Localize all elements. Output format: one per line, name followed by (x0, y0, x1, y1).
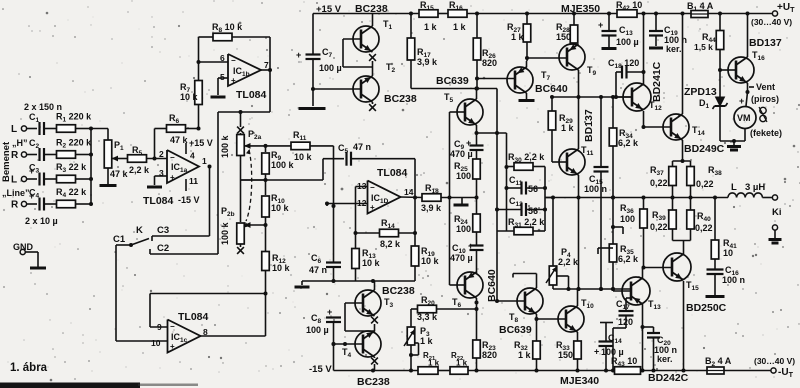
wire T5 base (450, 111, 466, 113)
resistor R3 (56, 162, 93, 183)
fan symbol (750, 107, 782, 138)
resistor R33 (556, 340, 581, 373)
wire T15 base (643, 267, 673, 269)
svg-text:47 n: 47 n (309, 265, 327, 275)
svg-text:0,22: 0,22 (650, 178, 668, 188)
capacitor C10 (450, 241, 484, 273)
capacitor C14 (594, 323, 624, 373)
svg-text:+: + (739, 96, 744, 106)
svg-text:0,22: 0,22 (650, 222, 668, 232)
wire node y180 (241, 156, 266, 223)
svg-text:BD241C: BD241C (651, 61, 663, 102)
resistor R24 (454, 198, 480, 246)
svg-text:+: + (594, 347, 599, 357)
svg-text:1. ábra: 1. ábra (10, 362, 48, 374)
resistor R32 (514, 319, 540, 373)
input terminal L1 (11, 124, 37, 135)
svg-text:100 µ: 100 µ (319, 63, 342, 73)
transistor T14 BD249C (663, 114, 705, 140)
wire bias node (553, 287, 630, 291)
wire C net to out (545, 197, 553, 199)
wire T8 base (497, 300, 525, 302)
label H quote (12, 138, 28, 148)
svg-text:C2: C2 (157, 243, 169, 254)
svg-text:MJE340: MJE340 (560, 375, 599, 387)
svg-text:3 µH: 3 µH (745, 182, 765, 193)
label BC639 T5 (436, 75, 469, 87)
label BD241C (651, 61, 663, 102)
svg-text:-15 V: -15 V (309, 364, 332, 375)
transistor T5 BC639 (444, 92, 483, 125)
wire T5 emitter (475, 125, 507, 135)
resistor R6 (155, 113, 201, 159)
wire BC639 node (411, 77, 497, 91)
svg-text:BC238: BC238 (382, 285, 415, 297)
wire IC1c feedback (150, 294, 266, 337)
svg-text:1 k: 1 k (518, 350, 532, 360)
svg-text:GND: GND (13, 242, 34, 252)
resistor R26 (473, 14, 497, 89)
ground tick out (454, 198, 469, 206)
svg-text:4: 4 (190, 151, 195, 161)
wire R39R40 join (673, 241, 691, 255)
transistor T16 BD137 (728, 50, 765, 83)
svg-text:10 k: 10 k (421, 256, 440, 266)
label BC639 T8 (499, 324, 532, 336)
wire T3 base (345, 303, 375, 331)
svg-text:100: 100 (456, 171, 471, 181)
svg-text:+: + (598, 20, 603, 30)
wire driver base column (449, 112, 451, 285)
capacitor C1 (29, 112, 57, 135)
svg-text:1 k: 1 k (511, 32, 525, 42)
inductor L (728, 182, 772, 198)
svg-text:0,22: 0,22 (696, 179, 714, 189)
svg-text:10 k: 10 k (180, 92, 199, 102)
label Line quote (2, 188, 30, 198)
op-amp IC1c (151, 320, 208, 353)
label Bemenet (1, 141, 12, 182)
svg-text:1 k: 1 k (424, 22, 438, 32)
capacitor C19 (649, 14, 687, 55)
wire col507 (505, 133, 509, 231)
wire gnd rail (302, 279, 415, 283)
wire T13 emitter (641, 304, 645, 373)
resistor R2 (56, 138, 93, 159)
resistor R41 (711, 198, 737, 270)
resistor R5 (121, 145, 167, 175)
wire T11 collector (578, 97, 580, 149)
svg-text:2 x 150 n: 2 x 150 n (24, 102, 62, 112)
svg-text:(30…40 V): (30…40 V) (751, 17, 792, 27)
wire T4 collector X (371, 357, 378, 371)
wire T10 emitter (577, 332, 579, 341)
transistor T7 BC640 (507, 67, 551, 93)
svg-text:470 µ: 470 µ (450, 253, 473, 263)
resistor R22 (450, 351, 537, 374)
svg-text:820: 820 (482, 58, 497, 68)
terminal Ki gnd (769, 225, 782, 243)
capacitor C9 (450, 133, 484, 159)
wire rail mid (438, 13, 448, 15)
ground C7 (299, 87, 326, 109)
label ZPD13 (684, 86, 717, 110)
wire rail right (527, 12, 617, 16)
svg-text:3,3 k: 3,3 k (417, 312, 438, 322)
resistor R7 (180, 37, 202, 129)
wire pin6 (199, 61, 229, 63)
label +15V (316, 4, 342, 15)
svg-text:+: + (327, 307, 332, 317)
op-amp IC1b (220, 53, 269, 86)
wire T14 emitter (681, 140, 685, 163)
op-amp IC1d (357, 181, 414, 214)
wire bottom rail (334, 369, 419, 373)
svg-text:TL084: TL084 (236, 89, 267, 101)
resistor R17 (407, 14, 438, 89)
transistor T3 BC238 (355, 290, 394, 316)
wire R11 tail (310, 146, 334, 206)
input terminal R2 (11, 150, 37, 161)
wire T14 collector (681, 12, 685, 115)
wire C2 line (150, 243, 218, 254)
wire pin13 (356, 187, 368, 234)
label BC238 T3 (382, 285, 415, 297)
power pin11 IC1a (178, 176, 200, 205)
label BC238 T4 (357, 376, 390, 388)
capacitor C7 (296, 14, 342, 107)
svg-text:R: R (11, 200, 19, 211)
svg-text:BC640: BC640 (535, 83, 568, 95)
wire out rail (401, 196, 424, 199)
svg-text:2,2 k: 2,2 k (129, 165, 150, 175)
svg-text:10 k: 10 k (294, 152, 313, 162)
wire T10 collector (577, 289, 579, 306)
svg-text:100: 100 (456, 224, 471, 234)
svg-text:10 k: 10 k (362, 258, 381, 268)
ground IC1a pin3 (147, 176, 167, 187)
label 1. abra (10, 362, 48, 374)
resistor R43 (611, 356, 641, 374)
transistor T11 BD137 (559, 145, 594, 175)
transistor T10 MJE340 (558, 298, 594, 332)
resistor R27 (507, 12, 531, 62)
wire VM gnd (720, 129, 745, 151)
label 2x150n (24, 102, 62, 112)
wire T2 collector X (369, 102, 376, 111)
wire T11 emitter (577, 175, 581, 291)
ground IC1b pin5 (211, 78, 229, 97)
svg-text:ZPD13: ZPD13 (684, 86, 717, 98)
resistor R40 (687, 198, 713, 241)
wire C3 line (152, 165, 212, 242)
svg-text:2: 2 (159, 149, 164, 159)
wire T13 collector (642, 268, 644, 279)
svg-text:14: 14 (404, 187, 414, 197)
svg-text:(30…40 V): (30…40 V) (754, 356, 795, 366)
svg-text:BD249C: BD249C (684, 143, 725, 155)
wire T3 emitter X (371, 317, 378, 331)
svg-text:1 k: 1 k (561, 123, 575, 133)
ground P1 (100, 168, 117, 186)
resistor R11 (266, 130, 313, 162)
capacitor C4 (29, 188, 57, 211)
wire T16 collector (747, 14, 749, 58)
svg-text:+: + (370, 203, 375, 212)
svg-text:+15 V: +15 V (189, 138, 213, 148)
resistor R39 (650, 198, 676, 241)
resistor R37 (650, 161, 676, 198)
input terminal R4 (11, 200, 37, 211)
wire bottom rail right (643, 369, 707, 373)
terminal +UT (751, 2, 795, 27)
label BC238 T1 (355, 3, 388, 15)
svg-text:2,2 k: 2,2 k (558, 257, 579, 267)
resistor R38 (687, 161, 722, 198)
transistor T9 MJE350 (559, 44, 597, 78)
svg-text:1: 1 (202, 156, 207, 166)
svg-text:6,2 k: 6,2 k (618, 138, 639, 148)
node P2a top (237, 110, 244, 133)
label BD242C (648, 372, 689, 384)
resistor R16 (448, 0, 527, 32)
label TL084 d (377, 167, 408, 179)
svg-text:BC238: BC238 (357, 376, 390, 388)
wire T11 base (552, 161, 567, 163)
svg-text:1 k: 1 k (428, 359, 440, 368)
terminal GND (13, 242, 46, 268)
wire T9 base (527, 57, 567, 59)
svg-text:3,9 k: 3,9 k (417, 57, 438, 67)
label TL084 b (236, 89, 267, 101)
label MJE350 (561, 3, 600, 15)
wire T1 emitter X (369, 54, 376, 67)
svg-text:56: 56 (528, 184, 538, 194)
svg-text:+: + (170, 173, 175, 182)
transistor T12 BD241C (623, 83, 662, 112)
svg-text:BC639: BC639 (499, 324, 532, 336)
node input bus (90, 129, 92, 205)
svg-text:+: + (468, 241, 473, 251)
bracket R34 (611, 225, 623, 234)
wire C5 to out (413, 159, 417, 235)
svg-text:100 µ: 100 µ (306, 325, 329, 335)
resistor R23 (473, 309, 497, 371)
capacitor C2 (29, 138, 57, 161)
svg-text:+: + (466, 138, 471, 148)
wire T9 collector (578, 70, 580, 97)
power pin4 IC1a (186, 138, 213, 161)
svg-text:(piros): (piros) (751, 94, 779, 104)
svg-text:47 k: 47 k (170, 135, 189, 145)
svg-text:1 k: 1 k (453, 22, 467, 32)
svg-text:L: L (11, 124, 17, 135)
capacitor C12 (497, 196, 545, 216)
wire T12 emitter (642, 111, 646, 129)
svg-text:−: − (170, 322, 175, 331)
wire T8 emitter (535, 314, 539, 321)
svg-text:+: + (231, 76, 236, 85)
wire bus to P1 (91, 129, 108, 141)
svg-text:+: + (296, 50, 301, 60)
label -15V (309, 364, 332, 375)
wire col497 (495, 89, 499, 304)
label Vent (749, 82, 779, 104)
resistor R14 (356, 218, 416, 249)
label BD249C (684, 143, 725, 155)
wire T14 base (644, 126, 672, 128)
wire T7 base (477, 78, 515, 80)
potentiometer P2a (220, 129, 268, 158)
svg-text:470 µ: 470 µ (450, 149, 473, 159)
scan artifact bar (0, 383, 198, 388)
capacitor C16 (706, 265, 746, 297)
ground rail sym (295, 281, 310, 287)
svg-text:Bemenet: Bemenet (1, 141, 12, 182)
capacitor C5 (241, 142, 416, 180)
svg-text:47 n: 47 n (353, 142, 371, 152)
resistor R19 (411, 233, 439, 281)
label BD137 T16 (749, 37, 782, 49)
wire T2 base (313, 88, 361, 90)
svg-text:TL084: TL084 (143, 195, 174, 207)
input terminal L3 (11, 175, 37, 186)
svg-text:K: K (136, 225, 143, 236)
svg-text:BD137: BD137 (583, 109, 595, 142)
svg-text:100 µ: 100 µ (616, 37, 639, 47)
wire IC1b out (261, 37, 272, 72)
wire +15V rail left (313, 12, 419, 16)
transistor T6 BC640 (452, 272, 483, 309)
transistor T8 BC639 (509, 288, 543, 324)
svg-text:100 k: 100 k (271, 160, 295, 170)
svg-text:1,5 k: 1,5 k (694, 42, 713, 52)
transistor T4 BC238 (342, 331, 381, 359)
svg-text:BD250C: BD250C (686, 302, 727, 314)
gang dashed line (245, 149, 252, 227)
svg-text:BD137: BD137 (749, 37, 782, 49)
wire T16 base (720, 69, 736, 71)
zener D1 (713, 70, 728, 141)
wire T3 collector (374, 281, 376, 290)
wire T8 collector (513, 274, 537, 289)
wire T7 collector gnd (519, 93, 535, 101)
resistor R21 (418, 351, 450, 374)
wire T7 emitter (526, 61, 528, 68)
switch K (113, 225, 149, 247)
wire rail y97 (552, 95, 632, 99)
wire T10 base (537, 318, 567, 320)
svg-text:100 k: 100 k (220, 221, 230, 245)
svg-text:100 k: 100 k (220, 134, 230, 158)
capacitor C6 (309, 206, 341, 281)
resistor R12 (262, 252, 291, 296)
wire T13 base (613, 290, 631, 292)
svg-text:10 k: 10 k (272, 263, 291, 273)
svg-text:(fekete): (fekete) (750, 128, 782, 138)
svg-text:L: L (731, 182, 737, 193)
svg-text:100 n: 100 n (584, 184, 607, 194)
svg-text:1 k: 1 k (420, 336, 434, 346)
resistor R30 (507, 152, 548, 231)
resistor R8 (199, 22, 271, 41)
resistor R10 (262, 193, 290, 252)
svg-text:„Line”: „Line” (2, 188, 30, 198)
svg-text:„H”: „H” (12, 138, 28, 148)
wire T15 emitter (682, 281, 686, 373)
svg-text:10 k: 10 k (271, 203, 290, 213)
resistor R18 (421, 183, 479, 213)
capacitor C13 (598, 14, 639, 49)
svg-text:-15 V: -15 V (178, 195, 200, 205)
svg-text:C3: C3 (157, 225, 169, 236)
svg-text:VM: VM (737, 113, 751, 123)
svg-text:Ki: Ki (772, 207, 782, 218)
svg-text:1 k: 1 k (456, 359, 468, 368)
resistor R13 (352, 231, 381, 281)
wire T5 collector (476, 89, 478, 100)
capacitor C18 (608, 58, 644, 99)
svg-text:6,2 k: 6,2 k (618, 254, 639, 264)
wire T4 emitter (374, 330, 376, 333)
svg-text:+: + (170, 342, 175, 351)
label TL084 a (143, 195, 174, 207)
svg-text:−: − (170, 153, 175, 162)
resistor R15 (419, 0, 438, 32)
svg-text:BC639: BC639 (436, 75, 469, 87)
svg-text:TL084: TL084 (377, 167, 408, 179)
op-amp IC1a (159, 149, 207, 183)
transistor T13 BD242C (622, 277, 661, 311)
resistor R34 (609, 97, 639, 244)
capacitor C15 (584, 97, 609, 291)
svg-text:TL084: TL084 (178, 311, 209, 323)
wire T16 emitter (746, 83, 750, 106)
capacitor C8 (306, 307, 341, 371)
svg-text:150: 150 (558, 350, 573, 360)
resistor R4 (56, 187, 93, 208)
bracket R35 (598, 248, 613, 254)
svg-text:47 k: 47 k (110, 169, 129, 179)
meter VM (734, 96, 756, 129)
label BC640 T6 (486, 269, 498, 302)
wire T1 base (343, 39, 373, 67)
wire IC1b loop (218, 70, 270, 254)
svg-text:C1: C1 (113, 234, 126, 245)
capacitor C20 (643, 327, 678, 371)
svg-text:8,2 k: 8,2 k (380, 239, 401, 249)
svg-text:R: R (11, 150, 19, 161)
resistor R1 (56, 112, 93, 133)
svg-text:820: 820 (482, 350, 497, 360)
svg-text:BD242C: BD242C (648, 372, 689, 384)
svg-text:BC238: BC238 (384, 93, 417, 105)
resistor R9 (262, 146, 295, 195)
potentiometer P1 (104, 140, 128, 179)
potentiometer P2b (220, 206, 266, 254)
label MJE340 (560, 375, 599, 387)
resistor R29 (548, 95, 574, 162)
wire T1 collector (372, 14, 374, 27)
resistor R28 (556, 12, 578, 45)
transistor T15 BD250C (663, 253, 699, 292)
potentiometer P4 (546, 198, 579, 290)
svg-text:56: 56 (528, 206, 538, 216)
fuse B1 (687, 1, 772, 18)
resistor R20 (411, 295, 477, 322)
transistor T1 BC238 (353, 19, 393, 52)
label BC238 T2 (384, 93, 417, 105)
